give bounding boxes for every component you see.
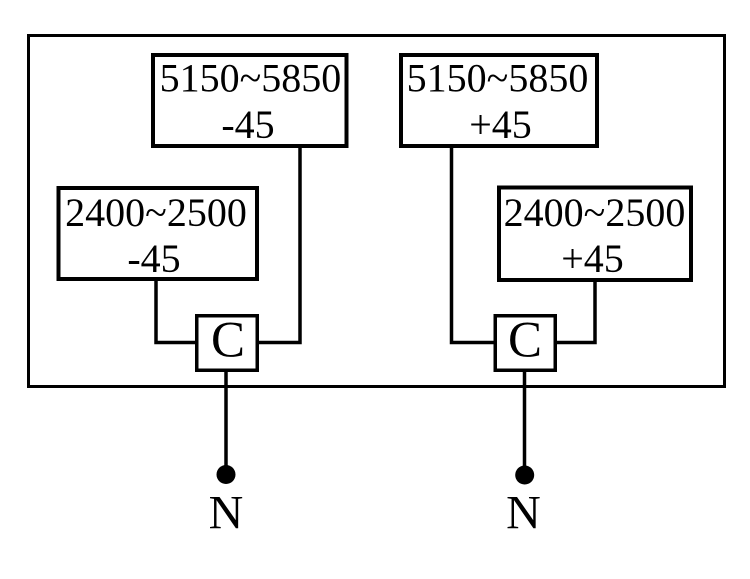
svg-text:N: N bbox=[506, 486, 541, 539]
combiner box C1 bbox=[197, 313, 258, 371]
svg-text:2400~2500: 2400~2500 bbox=[65, 190, 247, 235]
svg-text:2400~2500: 2400~2500 bbox=[504, 190, 686, 235]
svg-text:-45: -45 bbox=[127, 236, 180, 281]
svg-text:+45: +45 bbox=[469, 102, 532, 147]
wire: F2 output to C1 left input bbox=[156, 279, 196, 343]
svg-text:C: C bbox=[211, 313, 245, 369]
wire: C2 output to port N2 bbox=[523, 371, 527, 466]
svg-text:-45: -45 bbox=[221, 102, 274, 147]
port N1 terminal dot bbox=[217, 465, 236, 484]
filter box F3: 5150~5850 +45 bbox=[401, 55, 597, 147]
svg-text:N: N bbox=[209, 486, 244, 539]
svg-text:C: C bbox=[508, 313, 542, 369]
wire: F4 output to C2 right input bbox=[556, 279, 595, 343]
outer enclosure box bbox=[29, 36, 725, 387]
svg-text:+45: +45 bbox=[561, 236, 624, 281]
filter box F4: 2400~2500 +45 bbox=[499, 188, 691, 282]
svg-text:5150~5850: 5150~5850 bbox=[407, 56, 589, 101]
filter box F2: 2400~2500 -45 bbox=[59, 188, 258, 281]
wire: F3 output to C2 left input bbox=[452, 145, 495, 343]
filter box F1: 5150~5850 -45 bbox=[153, 55, 347, 147]
svg-text:5150~5850: 5150~5850 bbox=[160, 56, 342, 101]
wire: F1 output to C1 right input bbox=[258, 147, 300, 343]
port N2 terminal dot bbox=[515, 466, 534, 485]
combiner box C2 bbox=[495, 313, 555, 371]
wire: C1 output to port N1 bbox=[224, 371, 228, 466]
